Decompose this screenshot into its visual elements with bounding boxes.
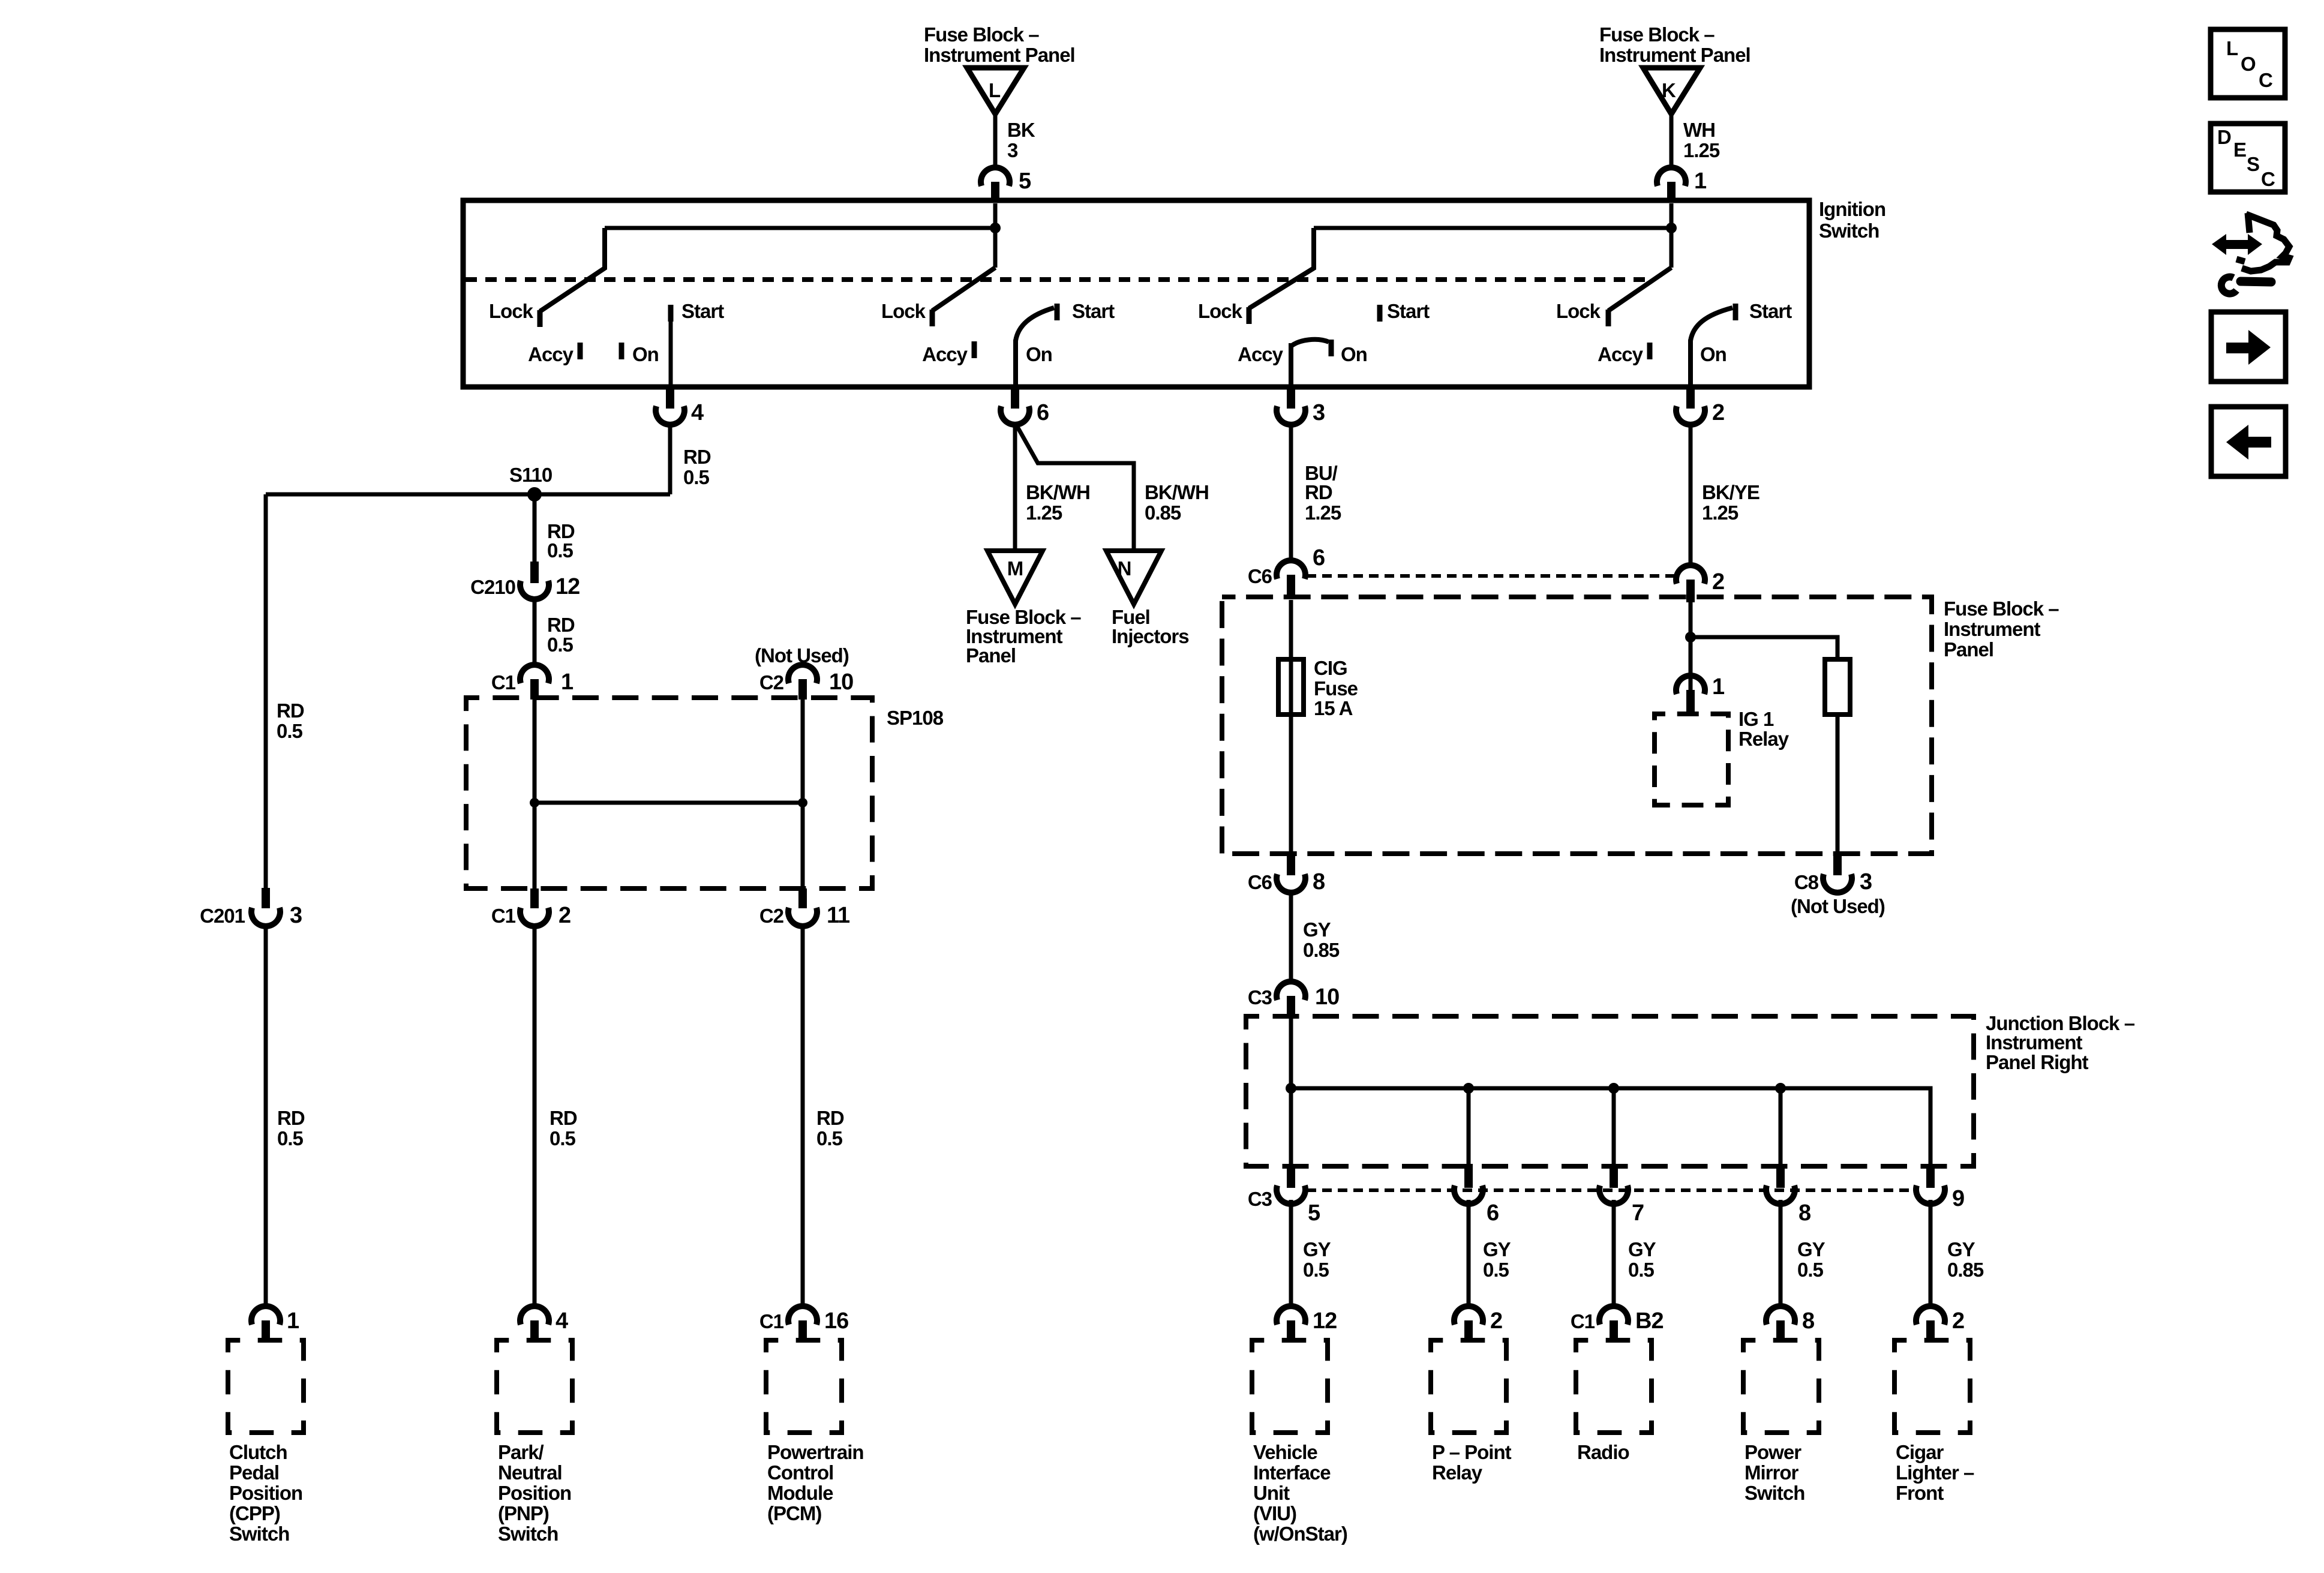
- svg-text:Ignition: Ignition: [1819, 198, 1885, 220]
- connector triangle L: [967, 68, 1024, 114]
- node bus 3: [1608, 1083, 1619, 1094]
- VIU dashed box: [1252, 1340, 1328, 1433]
- wire drop col4: [1779, 1088, 1783, 1164]
- group3 lock tick: [1247, 307, 1252, 324]
- group4 start tick: [1733, 304, 1739, 320]
- svg-text:GY: GY: [1947, 1238, 1975, 1260]
- svg-text:0.85: 0.85: [1145, 502, 1181, 524]
- svg-text:0.5: 0.5: [816, 1127, 843, 1149]
- svg-text:M: M: [1007, 557, 1023, 580]
- ignition switch box: [463, 200, 1809, 387]
- svg-text:Instrument Panel: Instrument Panel: [1599, 44, 1750, 66]
- svg-text:O: O: [2241, 53, 2256, 75]
- svg-text:Instrument: Instrument: [1986, 1031, 2083, 1053]
- group1 accy tick: [578, 343, 583, 359]
- node L feed junction: [990, 223, 1001, 233]
- wire C210 to C1-1: [533, 598, 537, 665]
- svg-text:3: 3: [1313, 400, 1325, 425]
- group4 labels: [1556, 300, 1792, 365]
- group3 accy-on curve: [1291, 340, 1329, 346]
- svg-text:E: E: [2233, 139, 2246, 161]
- svg-text:Start: Start: [1749, 300, 1792, 322]
- svg-text:0.85: 0.85: [1303, 939, 1340, 961]
- svg-text:12: 12: [556, 574, 580, 599]
- connector C6 pin 8: [1248, 855, 1325, 894]
- svg-text:Accy: Accy: [528, 343, 574, 365]
- svg-text:Pedal: Pedal: [229, 1461, 279, 1484]
- wire col5 down: [1929, 1200, 1933, 1305]
- svg-text:On: On: [632, 343, 659, 365]
- svg-text:SP108: SP108: [887, 707, 944, 729]
- svg-text:6: 6: [1313, 545, 1325, 571]
- svg-text:GY: GY: [1303, 918, 1331, 941]
- wire from L to pin 5: [993, 114, 998, 169]
- group2 labels: [881, 300, 1115, 365]
- svg-text:1.25: 1.25: [1683, 139, 1720, 161]
- svg-text:Neutral: Neutral: [498, 1461, 562, 1484]
- svg-text:Front: Front: [1896, 1482, 1944, 1504]
- wire col4 down: [1779, 1200, 1783, 1305]
- svg-text:Panel: Panel: [1944, 638, 1993, 661]
- SP108 dashed box: [466, 698, 944, 888]
- group2 start tick: [1055, 304, 1060, 320]
- wire C6-6 to CIG fuse: [1289, 600, 1293, 659]
- connector C8 pin 3 not used: [1791, 855, 1885, 917]
- svg-text:Instrument: Instrument: [1944, 618, 2041, 640]
- wire L feed horizontal to group1: [605, 226, 995, 230]
- svg-text:Park/: Park/: [498, 1441, 544, 1463]
- wire label GY 0.5 col2: [1483, 1238, 1511, 1281]
- svg-text:2: 2: [1712, 400, 1724, 425]
- svg-text:0.5: 0.5: [277, 1127, 304, 1149]
- svg-text:Position: Position: [229, 1482, 302, 1504]
- svg-text:Module: Module: [767, 1482, 833, 1504]
- connector cigar lighter pin 2: [1916, 1306, 1964, 1341]
- connector PCM C1 pin 16: [759, 1306, 848, 1341]
- wire C3-10 into junction block: [1289, 1016, 1293, 1164]
- CPP switch dashed box: [228, 1340, 304, 1433]
- wire C2 inside SP108: [801, 700, 805, 888]
- svg-text:C: C: [2261, 168, 2275, 190]
- wire C2-11 down: [801, 925, 805, 1305]
- group1 lock tick: [538, 310, 543, 327]
- group3 accy riser wire to pin 3: [1289, 343, 1293, 387]
- connector CPP pin 1: [251, 1306, 299, 1341]
- dotted connector line C3 row: [1307, 1188, 1915, 1192]
- svg-text:Control: Control: [767, 1461, 833, 1484]
- sidebar next arrow icon: [2211, 312, 2286, 382]
- connector C1 pin 1: [491, 665, 574, 700]
- svg-text:1: 1: [287, 1308, 299, 1334]
- wire S110 down to C210: [533, 494, 537, 563]
- label Fuse Block Instrument Panel (L): [924, 23, 1075, 66]
- svg-text:BK/YE: BK/YE: [1702, 481, 1759, 503]
- label VIU: [1253, 1441, 1347, 1545]
- label Fuse Block Instrument Panel (K): [1599, 23, 1750, 66]
- label power mirror switch: [1744, 1441, 1804, 1504]
- svg-text:RD: RD: [550, 1107, 577, 1129]
- wire pin6 to M triangle: [1013, 424, 1017, 551]
- node K feed junction: [1666, 223, 1677, 233]
- svg-text:10: 10: [1315, 984, 1339, 1010]
- svg-text:Lighter –: Lighter –: [1896, 1461, 1974, 1484]
- dashed detent line inside ignition switch: [466, 277, 1651, 282]
- wire drop col3: [1612, 1088, 1616, 1164]
- svg-text:GY: GY: [1628, 1238, 1656, 1260]
- svg-text:L: L: [2226, 37, 2238, 59]
- connector IG1 relay pin 1: [1676, 674, 1725, 715]
- svg-text:C: C: [2259, 69, 2272, 91]
- svg-text:(VIU): (VIU): [1253, 1502, 1296, 1524]
- wire pin2 down: [1689, 424, 1693, 566]
- svg-text:WH: WH: [1683, 119, 1715, 141]
- svg-text:Fuse: Fuse: [1314, 677, 1358, 700]
- switch arm group2 lock: [932, 268, 995, 311]
- svg-text:Accy: Accy: [1598, 343, 1644, 365]
- svg-text:1.25: 1.25: [1702, 502, 1739, 524]
- group3 labels: [1198, 300, 1430, 365]
- svg-text:Instrument Panel: Instrument Panel: [924, 44, 1075, 66]
- svg-text:5: 5: [1308, 1200, 1320, 1226]
- wire C201 down: [264, 925, 268, 1305]
- node fuse block junction: [1685, 632, 1696, 643]
- svg-text:RD: RD: [547, 614, 575, 636]
- svg-text:CIG: CIG: [1314, 657, 1347, 679]
- cigar lighter dashed box: [1894, 1340, 1970, 1433]
- label junction block instrument panel right: [1986, 1012, 2135, 1073]
- node S110: [509, 464, 552, 502]
- connector pin 2 below box: [1676, 387, 1724, 425]
- group3 start tick: [1377, 305, 1383, 322]
- svg-text:Clutch: Clutch: [229, 1441, 287, 1463]
- switch arm group3 lock: [1249, 228, 1314, 308]
- svg-text:Cigar: Cigar: [1896, 1441, 1944, 1463]
- bus bar inside junction block: [1291, 1088, 1930, 1164]
- svg-text:Accy: Accy: [1238, 343, 1284, 365]
- node bus 2: [1463, 1083, 1474, 1094]
- svg-text:Radio: Radio: [1577, 1441, 1629, 1463]
- svg-text:7: 7: [1632, 1200, 1644, 1226]
- svg-text:Switch: Switch: [1744, 1482, 1804, 1504]
- wire label GY 0.85: [1303, 918, 1340, 961]
- connector C3 pin 10: [1248, 981, 1339, 1017]
- svg-text:0.5: 0.5: [550, 1127, 576, 1149]
- svg-text:N: N: [1118, 557, 1131, 580]
- svg-text:(CPP): (CPP): [229, 1502, 280, 1524]
- connector triangle M: [987, 551, 1043, 604]
- svg-text:3: 3: [1007, 139, 1018, 161]
- wire label GY 0.85 col5: [1947, 1238, 1984, 1281]
- node bus 4: [1775, 1083, 1786, 1094]
- svg-text:Fuse Block –: Fuse Block –: [924, 23, 1039, 46]
- svg-text:16: 16: [824, 1308, 848, 1334]
- wire label BK/WH 0.85: [1145, 481, 1209, 524]
- svg-text:Panel: Panel: [966, 644, 1016, 667]
- wire from K to pin 1: [1670, 114, 1674, 169]
- svg-text:Start: Start: [1072, 300, 1115, 322]
- svg-text:K: K: [1662, 79, 1676, 101]
- connector pin 3 below box: [1277, 387, 1325, 425]
- connector C3 pin 9: [1916, 1164, 1964, 1211]
- svg-text:0.5: 0.5: [547, 634, 574, 656]
- PCM dashed box: [766, 1340, 842, 1433]
- svg-text:4: 4: [691, 400, 704, 425]
- svg-text:Start: Start: [1387, 300, 1430, 322]
- connector C210 pin 12: [470, 562, 580, 599]
- group4 on riser wire to pin 2: [1688, 340, 1693, 387]
- wire C1 inside SP108: [533, 700, 537, 888]
- connector VIU pin 12: [1277, 1306, 1337, 1341]
- svg-text:RD: RD: [683, 446, 711, 468]
- svg-text:RD: RD: [1305, 481, 1332, 503]
- wire col2 down: [1467, 1200, 1471, 1305]
- wire S110 horizontal: [266, 493, 670, 497]
- svg-text:(w/OnStar): (w/OnStar): [1253, 1523, 1347, 1545]
- radio dashed box: [1576, 1340, 1652, 1433]
- wire pin4 down: [668, 424, 672, 494]
- svg-text:1: 1: [1694, 169, 1707, 194]
- svg-text:0.5: 0.5: [1483, 1259, 1509, 1281]
- svg-text:C3: C3: [1248, 1188, 1272, 1210]
- wire pin3 down to C6: [1289, 424, 1293, 562]
- svg-text:C2: C2: [759, 905, 784, 927]
- svg-text:Fuse Block –: Fuse Block –: [1599, 23, 1715, 46]
- svg-text:B2: B2: [1635, 1308, 1664, 1334]
- svg-text:C8: C8: [1794, 871, 1819, 893]
- svg-text:RD: RD: [816, 1107, 844, 1129]
- svg-text:(PNP): (PNP): [498, 1502, 549, 1524]
- svg-text:Relay: Relay: [1432, 1461, 1483, 1484]
- svg-text:S110: S110: [509, 464, 552, 486]
- label Ignition Switch: [1819, 198, 1885, 242]
- label P-point relay: [1432, 1441, 1512, 1484]
- wire label GY 0.5 col1: [1303, 1238, 1331, 1281]
- wire left branch down: [264, 494, 268, 891]
- label fuel injectors under N: [1112, 606, 1189, 647]
- connector C3 pin 7: [1599, 1164, 1644, 1226]
- wire C6-8 to C3-10: [1289, 892, 1293, 983]
- wire label RD 0.5 above C1: [547, 614, 575, 656]
- wire label GY 0.5 col4: [1797, 1238, 1825, 1281]
- svg-text:BK/WH: BK/WH: [1026, 481, 1090, 503]
- wire right fuse to C8: [1836, 715, 1840, 854]
- switch arm group4 lock: [1608, 268, 1671, 311]
- svg-text:BK: BK: [1007, 119, 1035, 141]
- svg-text:0.85: 0.85: [1947, 1259, 1984, 1281]
- group3 curve end tick: [1329, 340, 1334, 356]
- connector C2 pin 10: [759, 665, 853, 700]
- right fuse (unused): [1825, 659, 1850, 715]
- group1 labels: [489, 300, 724, 365]
- connector C3 pin 5: [1248, 1164, 1320, 1226]
- fuse block instrument panel dashed box: [1222, 597, 1932, 854]
- svg-text:2: 2: [1952, 1308, 1964, 1334]
- connector triangle N: [1106, 551, 1161, 604]
- connector C1 pin 2: [491, 888, 571, 928]
- svg-text:0.5: 0.5: [1797, 1259, 1824, 1281]
- sidebar diagnostic icon double arrow: [2212, 234, 2262, 255]
- svg-text:2: 2: [1490, 1308, 1502, 1334]
- svg-text:Lock: Lock: [1198, 300, 1243, 322]
- node bus 1: [1286, 1083, 1296, 1094]
- svg-text:C2: C2: [759, 671, 784, 694]
- wire C1-2 down: [533, 925, 537, 1305]
- connector C2 pin 11: [759, 888, 850, 928]
- dotted connector line C6 row: [1307, 574, 1675, 578]
- wire label RD 0.5 right lower: [816, 1107, 844, 1149]
- sidebar DESC icon: [2211, 124, 2285, 192]
- svg-text:C1: C1: [1571, 1310, 1595, 1332]
- svg-text:Switch: Switch: [1819, 220, 1879, 242]
- svg-text:Power: Power: [1744, 1441, 1801, 1463]
- connector fuse block pin 2: [1676, 565, 1724, 602]
- svg-text:(Not Used): (Not Used): [1791, 895, 1885, 917]
- svg-text:C3: C3: [1248, 986, 1272, 1008]
- svg-text:Start: Start: [681, 300, 724, 322]
- svg-text:Switch: Switch: [498, 1523, 558, 1545]
- svg-text:Lock: Lock: [1556, 300, 1601, 322]
- svg-text:11: 11: [827, 903, 850, 928]
- wire pin2 inside fuse block: [1689, 601, 1693, 690]
- IG 1 relay dashed box: [1655, 708, 1789, 805]
- connector C3 pin 8: [1766, 1164, 1810, 1226]
- svg-text:2: 2: [559, 903, 571, 928]
- svg-text:9: 9: [1952, 1186, 1964, 1211]
- svg-text:Accy: Accy: [922, 343, 968, 365]
- svg-text:Unit: Unit: [1253, 1482, 1290, 1504]
- group2 lock tick: [930, 310, 935, 326]
- svg-text:On: On: [1026, 343, 1052, 365]
- svg-text:Fuse Block –: Fuse Block –: [1944, 598, 2059, 620]
- svg-text:2: 2: [1712, 569, 1724, 595]
- group2 on-start curve: [1016, 308, 1054, 341]
- CIG fuse: [1278, 657, 1358, 719]
- group4 lock tick: [1606, 310, 1611, 326]
- svg-text:8: 8: [1798, 1200, 1810, 1226]
- label cigar lighter front: [1896, 1441, 1974, 1504]
- svg-text:Panel Right: Panel Right: [1986, 1051, 2089, 1073]
- connector P-point relay pin 2: [1454, 1306, 1502, 1341]
- wire label RD 0.5 left upper: [277, 700, 304, 742]
- svg-text:Lock: Lock: [881, 300, 926, 322]
- label PCM: [767, 1441, 864, 1524]
- svg-text:3: 3: [1860, 869, 1872, 894]
- svg-text:8: 8: [1313, 869, 1325, 894]
- sidebar LOC icon: [2211, 29, 2285, 98]
- connector C6 pin 6: [1248, 545, 1325, 598]
- svg-text:C201: C201: [200, 905, 245, 927]
- svg-text:Lock: Lock: [489, 300, 534, 322]
- label fuse block instrument panel under M: [966, 606, 1081, 667]
- svg-text:C1: C1: [491, 905, 516, 927]
- svg-text:(PCM): (PCM): [767, 1502, 821, 1524]
- svg-text:C1: C1: [759, 1310, 784, 1332]
- svg-text:0.5: 0.5: [277, 720, 303, 742]
- svg-text:S: S: [2247, 153, 2259, 175]
- wire SP108 bridge: [535, 801, 803, 805]
- svg-text:C1: C1: [491, 671, 516, 694]
- svg-text:15 A: 15 A: [1314, 697, 1353, 719]
- wire drop col2: [1467, 1088, 1471, 1164]
- svg-text:12: 12: [1313, 1308, 1337, 1334]
- svg-text:3: 3: [290, 903, 302, 928]
- svg-text:Powertrain: Powertrain: [767, 1441, 864, 1463]
- connector pin 4 below box: [656, 387, 704, 425]
- svg-text:Switch: Switch: [229, 1523, 289, 1545]
- connector C3 pin 6: [1454, 1164, 1499, 1226]
- svg-text:GY: GY: [1303, 1238, 1331, 1260]
- svg-text:Vehicle: Vehicle: [1253, 1441, 1317, 1463]
- group1 on tick: [619, 343, 624, 359]
- svg-text:GY: GY: [1483, 1238, 1511, 1260]
- wire label GY 0.5 col3: [1628, 1238, 1656, 1281]
- P-point relay dashed box: [1431, 1340, 1506, 1433]
- svg-text:0.5: 0.5: [1303, 1259, 1329, 1281]
- wire pin6 branch to N: [1016, 425, 1134, 551]
- label PNP switch: [498, 1441, 571, 1545]
- connector pin 1 ignition switch: [1657, 167, 1707, 202]
- svg-text:P – Point: P – Point: [1432, 1441, 1512, 1463]
- wire K feed horizontal to group3: [1314, 226, 1671, 230]
- switch arm group1 lock: [540, 228, 605, 311]
- wire junction to right fuse: [1691, 637, 1837, 659]
- svg-text:D: D: [2217, 126, 2231, 148]
- svg-text:0.5: 0.5: [683, 466, 710, 488]
- group2 accy tick: [972, 341, 977, 358]
- wire CIG fuse to C6-8: [1289, 715, 1293, 854]
- wire col1 down: [1289, 1200, 1293, 1305]
- group4 on-start curve: [1691, 308, 1733, 341]
- connector pin 5 ignition switch: [981, 167, 1031, 202]
- svg-text:6: 6: [1487, 1200, 1499, 1226]
- wire label BK 3: [1007, 119, 1035, 161]
- node SP108 left: [530, 798, 539, 807]
- sidebar diagnostic icon outline: [2236, 213, 2289, 271]
- group2 on riser wire to pin 6: [1013, 340, 1018, 387]
- node SP108 right: [798, 798, 807, 807]
- wire col3 down: [1612, 1200, 1616, 1305]
- svg-text:IG 1: IG 1: [1739, 708, 1774, 730]
- svg-text:RD: RD: [277, 700, 304, 722]
- wire label RD 0.5 middle lower: [550, 1107, 577, 1149]
- wire label BK/YE 1.25: [1702, 481, 1759, 524]
- svg-text:5: 5: [1019, 169, 1031, 194]
- group1 start tick and wire to pin 4: [668, 305, 674, 322]
- svg-text:On: On: [1700, 343, 1727, 365]
- wire label RD 0.5 above C210: [547, 520, 575, 562]
- sidebar back arrow icon: [2211, 407, 2286, 476]
- connector triangle K: [1643, 68, 1700, 114]
- svg-text:10: 10: [829, 670, 853, 695]
- wire label BK/WH 1.25: [1026, 481, 1090, 524]
- svg-text:1.25: 1.25: [1305, 502, 1341, 524]
- wire label WH 1.25: [1683, 119, 1720, 161]
- junction block dashed box: [1246, 1016, 1974, 1166]
- svg-text:1: 1: [1712, 674, 1725, 700]
- svg-text:Relay: Relay: [1739, 728, 1789, 750]
- PNP switch dashed box: [497, 1340, 572, 1433]
- connector C201 pin 3: [200, 888, 302, 928]
- svg-text:1.25: 1.25: [1026, 502, 1062, 524]
- svg-text:C210: C210: [470, 576, 515, 598]
- label fuse block instrument panel right: [1944, 598, 2059, 661]
- group4 accy tick: [1647, 343, 1653, 359]
- svg-text:Injectors: Injectors: [1112, 625, 1189, 647]
- svg-text:C6: C6: [1248, 871, 1272, 893]
- wire K feed inside box: [1670, 203, 1674, 268]
- connector power mirror switch pin 8: [1766, 1306, 1814, 1341]
- wire label RD 0.5 pin4: [683, 446, 711, 488]
